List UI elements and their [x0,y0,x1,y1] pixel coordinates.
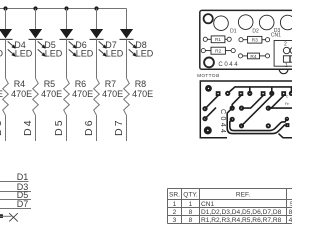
svg-text:R4: R4 [250,54,256,60]
svg-text:470E: 470E [11,89,32,99]
svg-text:8: 8 [189,217,193,224]
svg-text:470E: 470E [102,89,123,99]
svg-text:470E: 470E [0,89,3,99]
svg-text:470E: 470E [72,89,93,99]
svg-text:D7: D7 [113,118,125,136]
svg-text:8: 8 [189,209,193,216]
svg-text:2: 2 [173,209,177,216]
svg-text:R3: R3 [252,38,258,44]
svg-text:470E: 470E [132,89,153,99]
svg-text:LED: LED [106,49,124,59]
svg-text:470E: 470E [41,89,62,99]
svg-text:R8: R8 [135,79,147,89]
svg-text:3: 3 [173,217,177,224]
svg-text:D3: D3 [0,118,4,136]
svg-text:5: 5 [290,201,292,208]
svg-text:D5: D5 [53,118,65,136]
svg-text:R2: R2 [215,49,221,55]
svg-text:D6: D6 [83,118,95,136]
svg-text:R7: R7 [105,79,117,89]
svg-text:LED: LED [136,49,154,59]
svg-text:CN1: CN1 [201,201,215,208]
svg-text:D1: D1 [17,172,29,182]
svg-text:R4: R4 [14,79,26,89]
svg-text:D2: D2 [252,29,259,35]
svg-text:4: 4 [289,217,292,224]
svg-text:CN1: CN1 [271,33,281,39]
svg-text:LED: LED [76,49,94,59]
svg-text:C044: C044 [219,109,226,135]
svg-text:8: 8 [289,209,292,216]
svg-text:C044: C044 [218,62,239,68]
svg-text:D1,D2,D3,D4,D5,D6,D7,D8: D1,D2,D3,D4,D5,D6,D7,D8 [201,209,282,216]
svg-text:R1: R1 [215,37,221,43]
svg-text:LED: LED [15,49,33,59]
svg-text:SR.: SR. [169,192,180,199]
svg-text:R1,R2,R3,R4,R5,R6,R7,R8: R1,R2,R3,R4,R5,R6,R7,R8 [201,217,282,224]
svg-text:QTY.: QTY. [183,192,198,199]
svg-text:R5: R5 [44,79,56,89]
svg-text:D7: D7 [17,199,29,209]
svg-text:REF.: REF. [236,192,250,199]
svg-text:LED: LED [0,49,4,59]
svg-text:2: 2 [284,41,287,47]
svg-text:1: 1 [189,201,193,208]
svg-text:C: C [286,95,289,99]
svg-text:1: 1 [285,63,288,69]
svg-text:R6: R6 [75,79,87,89]
svg-text:BOTTOM: BOTTOM [197,73,219,79]
svg-text:Fe: Fe [285,102,289,106]
svg-text:1: 1 [173,201,177,208]
svg-text:D4: D4 [22,118,34,136]
svg-text:D1: D1 [230,28,237,34]
svg-text:LED: LED [45,49,63,59]
